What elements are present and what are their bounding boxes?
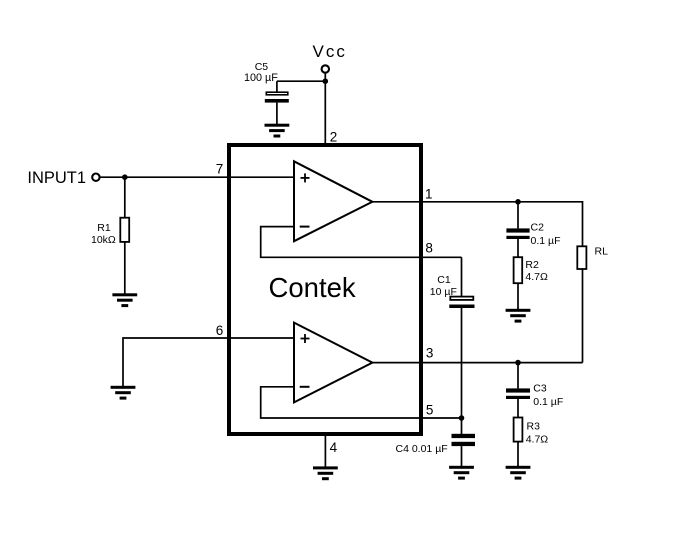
ground (506, 466, 531, 480)
wire (372, 202, 582, 247)
svg-text:0.1 µF: 0.1 µF (533, 396, 563, 408)
svg-text:2: 2 (330, 130, 338, 145)
ground (265, 124, 290, 138)
svg-text:8: 8 (425, 241, 433, 256)
terminal INPUT1 (92, 174, 99, 181)
svg-text:4: 4 (330, 440, 338, 455)
wire (261, 387, 462, 418)
junction (459, 415, 465, 421)
svg-text:5: 5 (426, 402, 434, 417)
terminal VCC (322, 65, 329, 72)
junction (122, 174, 128, 180)
capacitor C4 (452, 418, 476, 466)
wire (261, 227, 462, 258)
capacitor C2 (506, 202, 529, 257)
svg-text:6: 6 (216, 323, 224, 338)
svg-text:C4 0.01 µF: C4 0.01 µF (396, 443, 448, 455)
wire (100, 176, 294, 178)
svg-text:C1: C1 (437, 274, 451, 286)
svg-text:C2: C2 (531, 221, 545, 233)
resistor R2 (514, 257, 523, 309)
svg-text:R3: R3 (527, 421, 541, 433)
svg-text:3: 3 (426, 346, 434, 361)
svg-text:10 µF: 10 µF (430, 286, 457, 298)
resistor RL (577, 246, 586, 362)
wire (372, 362, 582, 364)
ground (111, 386, 136, 400)
svg-text:Vcc: Vcc (313, 42, 347, 61)
ground (313, 466, 338, 480)
ground (449, 466, 474, 480)
svg-text:4.7Ω: 4.7Ω (525, 271, 548, 283)
svg-text:1: 1 (425, 186, 433, 201)
junction (323, 78, 329, 84)
svg-text:10kΩ: 10kΩ (91, 234, 116, 246)
svg-text:R1: R1 (97, 222, 111, 234)
ground (112, 293, 137, 307)
svg-text:RL: RL (595, 245, 609, 257)
wire (324, 436, 326, 467)
capacitor C3 (506, 363, 530, 418)
ground (506, 309, 531, 323)
wire (277, 80, 325, 82)
resistor R1 (120, 177, 129, 294)
svg-text:0.1 µF: 0.1 µF (531, 235, 561, 247)
svg-text:4.7Ω: 4.7Ω (526, 434, 549, 446)
chip U1 Contek (229, 145, 421, 434)
svg-text:7: 7 (216, 161, 224, 176)
capacitor C5 (265, 81, 289, 124)
junction (515, 199, 521, 205)
capacitor C1 (449, 257, 474, 418)
wire (324, 73, 326, 145)
svg-text:R2: R2 (525, 259, 539, 271)
wire (123, 338, 294, 386)
svg-text:Contek: Contek (269, 272, 356, 303)
svg-text:100 µF: 100 µF (244, 72, 278, 84)
resistor R3 (514, 418, 523, 467)
op-amp U1B (294, 323, 372, 403)
svg-text:INPUT1: INPUT1 (27, 169, 86, 187)
svg-text:C3: C3 (533, 383, 547, 395)
junction (515, 360, 521, 366)
op-amp U1A (294, 161, 372, 241)
